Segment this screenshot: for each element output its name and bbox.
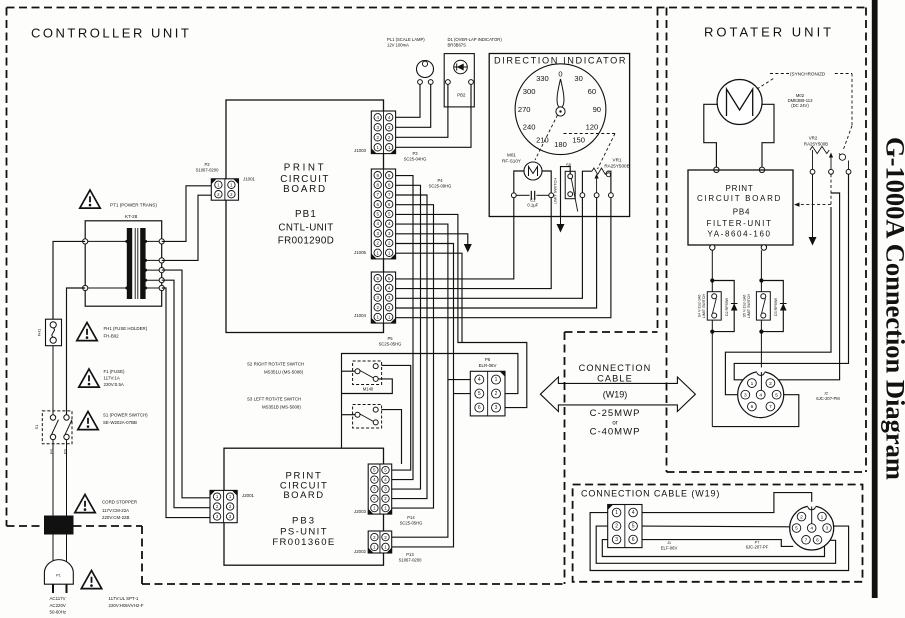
connector P7 6JC-207-PF round [790,506,834,550]
wire J1 pin4 to P7 pin4 notch [642,493,812,524]
print circuit board PB3 outline [224,448,384,565]
S3 contacts [355,412,360,417]
svg-text:P6: P6 [485,357,491,362]
P7 pin 6 [813,536,822,545]
fuse FH1 terminals and element [50,322,56,328]
svg-text:J2002: J2002 [354,549,367,554]
svg-text:PB2: PB2 [457,93,466,98]
wire transformer to J2001 pin3 [162,288,210,518]
svg-text:J1005: J1005 [354,250,367,255]
svg-text:PB1: PB1 [295,209,317,220]
connector J1001 [211,179,238,200]
svg-text:P4: P4 [437,178,443,183]
wire transformer primary left to AC line B [67,288,86,415]
svg-text:VR1: VR1 [613,158,622,163]
print circuit board PB1 outline [226,100,384,333]
S2 lever [360,370,374,378]
wire DI VR1-right to J1004 pin1 [396,198,611,318]
S3 lever [360,414,374,422]
svg-text:SC25-05HG: SC25-05HG [400,521,423,526]
svg-text:5: 5 [795,526,798,532]
wire S1 to cord stopper line B [66,440,68,516]
svg-text:FR001290D: FR001290D [278,236,334,247]
wire S5 into J2 pin4 through notch [760,372,762,390]
P7 pin 7 [802,536,811,545]
J2 pin 5 [772,390,781,399]
wire J1005 pin4 to J2002 pin2 with branch to P6 pin4 [392,224,448,537]
wire lamp right to J1003 pin3 [396,84,431,127]
svg-text:PB3: PB3 [292,516,316,527]
wire VR2 right terminal to J2 pin1 loop [734,174,848,380]
svg-text:MS351B (MS-5008): MS351B (MS-5008) [262,405,301,410]
svg-text:1: 1 [751,381,754,387]
wire DI S6 to J1004 pin3 [396,198,583,299]
connector J2 6JC-207-PM round [738,372,784,418]
controller unit dashed boundary top [7,7,867,9]
transformer PT1 primary winding bar [127,228,132,299]
limit switch S6 lever [571,178,577,211]
PB4 top terminals [714,167,719,172]
connector J1004 [371,272,395,323]
J2 pin 6 [748,402,757,411]
svg-text:ROTATER UNIT: ROTATER UNIT [704,25,834,40]
svg-text:RA25Y500B: RA25Y500B [804,141,828,146]
svg-text:4: 4 [759,392,762,398]
svg-text:ELR-06V: ELR-06V [479,363,497,368]
svg-text:SC25-05HG: SC25-05HG [379,342,402,347]
svg-text:J1004: J1004 [354,313,367,318]
svg-text:RA25Y500B: RA25Y500B [604,164,629,169]
connector J2003 [368,464,392,514]
diode D3 symbol [780,304,787,311]
wire cord stopper to plug [52,535,54,571]
svg-text:S1067-0200: S1067-0200 [196,168,219,173]
svg-text:SC25-09HG: SC25-09HG [429,184,452,189]
P7 pin 1 [818,512,827,521]
svg-text:5: 5 [632,524,635,530]
svg-text:J1003: J1003 [354,148,367,153]
J2 pin 1 [748,379,757,388]
wire PB2 right to J1003 pin1 [396,84,471,147]
svg-text:6: 6 [478,405,481,411]
wire J1 pin1 to P7 pin3 [590,513,849,571]
limit switch S4 wire from PB4 [711,250,713,426]
connector J2001 [210,490,237,522]
svg-text:1: 1 [821,514,824,520]
P7 pin 2 [797,512,806,521]
overlap indicator PB2 box [444,54,474,107]
svg-text:BR3B67S: BR3B67S [448,43,467,48]
svg-text:FR001360E: FR001360E [272,537,335,548]
svg-text:4: 4 [478,377,481,383]
svg-text:FH-B02: FH-B02 [104,334,120,339]
svg-text:PRINT: PRINT [284,163,326,174]
power switch S1 levers [52,420,59,435]
svg-text:6JC-207-PM: 6JC-207-PM [816,396,840,401]
S5 junction dots [759,278,763,282]
rotator unit dashed boundary right [865,8,867,473]
svg-text:S2 RIGHT ROTATE SWITCH: S2 RIGHT ROTATE SWITCH [247,362,304,367]
svg-text:AC220V: AC220V [50,603,66,608]
svg-text:PT1 (POWER TRANS): PT1 (POWER TRANS) [110,203,157,208]
diode D3 branch [761,281,783,332]
rotator unit dashed boundary left [666,8,668,473]
wire VR2 jog to J2 pin2 loop [779,193,840,380]
controller unit dashed boundary cord stopper to jog [74,525,143,527]
svg-text:S3 LEFT ROTATE SWITCH: S3 LEFT ROTATE SWITCH [247,397,301,402]
dashed wire VR2 wiper to PB4 [830,174,832,204]
wire transformer primary left to AC line A [53,241,85,319]
svg-text:7: 7 [805,538,808,544]
diode D2 symbol [731,304,738,311]
chassis arrow below DI box from S6 loop [560,217,562,226]
J2 pin 3 [741,390,750,399]
motor M01 circle [524,162,542,180]
svg-text:(SYNCHRONIZD: (SYNCHRONIZD [790,71,826,76]
svg-text:1: 1 [495,377,498,383]
svg-text:90: 90 [593,105,601,114]
controller unit dashed boundary bottom [142,583,565,585]
S2 contacts [355,369,360,374]
limit switch S5 box [756,292,770,320]
S4 junction dots [710,278,714,282]
wire VR2 wiper solid down to J2 pin3 loop [725,207,831,395]
transformer PT1 secondary winding bar [140,228,145,299]
J2 pin 2 [766,379,775,388]
plug P1 prongs [52,584,54,593]
svg-text:S4 V-1S2-1A6: S4 V-1S2-1A6 [697,295,701,318]
warning triangle P1 cable [81,571,101,589]
svg-text:CORD STOPPER: CORD STOPPER [102,500,137,505]
wire transformer to J2001 pin2 [162,280,210,508]
svg-text:P1: P1 [56,574,61,578]
wire transformer to J2001 pin1 [162,270,210,498]
wire J1005 pin6 to J2003 pin1 [392,205,434,508]
svg-text:4: 4 [810,526,813,532]
transformer PT1 core lines [134,228,136,299]
warning triangle FH1 [77,323,97,341]
svg-text:0: 0 [558,70,562,79]
svg-text:6: 6 [816,538,819,544]
svg-text:SC25-04HG: SC25-04HG [404,157,427,162]
wire J1 pin6 to P7 pin7 [642,540,793,547]
svg-text:120: 120 [586,122,599,131]
cord stopper block [44,516,74,535]
warning triangle PT1 [80,190,100,208]
svg-text:J2001: J2001 [242,493,255,498]
transformer PT1 primary taps [85,240,127,242]
plug P1 body [44,560,73,585]
J2 pin 4 [756,390,765,399]
print circuit board PB4 outline [688,170,793,245]
svg-text:117V:UL SPT-1: 117V:UL SPT-1 [109,596,139,601]
svg-text:AC117V: AC117V [50,596,66,601]
wire S2 common stub [342,370,356,372]
wire J1005 pin8 to J2003 pin3 [392,185,421,489]
svg-text:VR2: VR2 [809,136,818,141]
rotate switch S3 dashed box [353,405,382,429]
svg-text:RF-S10Y: RF-S10Y [502,159,521,164]
svg-text:12V 100mA: 12V 100mA [387,43,409,48]
svg-text:J2: J2 [824,392,828,396]
svg-text:220V:H05VVH2-F: 220V:H05VVH2-F [109,603,144,608]
controller unit dashed boundary right-upper [657,8,659,333]
svg-text:(DC 24V): (DC 24V) [791,103,809,108]
svg-text:CNTL-UNIT: CNTL-UNIT [278,223,333,234]
svg-text:5: 5 [775,392,778,398]
dashed link needle to M01 [535,115,558,160]
svg-text:50-60Hz: 50-60Hz [50,610,67,615]
wire DI M01-right to J1004 pin4 [396,198,552,289]
rotator unit dashed boundary bottom [667,471,867,473]
wire VR2 left terminal chassis arrow [812,174,814,238]
svg-text:(W19): (W19) [603,390,628,400]
wire J1 pin2 to P7 pin1 [596,526,835,563]
connector P6 ELR-06V [470,371,505,416]
motor M01 loop wires [514,171,524,193]
svg-text:C-25MWP: C-25MWP [590,408,641,419]
wire lamp left to J1003 pin4 [396,84,420,117]
svg-text:S1067-0200: S1067-0200 [399,558,422,563]
controller unit dashed boundary left [6,8,8,527]
wire J1 pin3 to P7 pin6 [602,540,824,557]
svg-text:3: 3 [826,526,829,532]
wire S6 top loop to box bottom [561,167,571,217]
svg-text:G-1000A Connection Diagram: G-1000A Connection Diagram [881,137,905,480]
wire S2-NC down to J2003 pin5 [381,365,410,470]
svg-text:P14: P14 [407,515,415,520]
transformer PT1 outline [85,221,162,306]
wire J1005 pin2 to J2002 pin1 with branch to P6 pin5 [392,244,454,547]
wire transformer to J1001 pin2 [162,195,212,260]
P7 pin 3 [823,524,832,533]
wire DI VR1-wiper to J1004 pin2 [396,198,597,308]
P7 pin 5 [792,524,801,533]
title bar black strip [872,0,878,598]
warning triangle cord stopper [75,495,95,513]
J2 pin 7 [766,402,775,411]
svg-text:3: 3 [615,537,618,543]
svg-text:D3 RP59W: D3 RP59W [774,297,778,316]
svg-text:PL1 (SCALE LAMP): PL1 (SCALE LAMP) [387,37,425,42]
LED D1 symbol [454,60,468,74]
svg-text:6: 6 [632,537,635,543]
warning triangle F1 [79,369,99,387]
svg-text:30: 30 [574,74,582,83]
svg-text:PB4: PB4 [733,208,751,217]
wire J2 bottom loop pin5 [712,395,799,427]
svg-text:2: 2 [769,381,772,387]
svg-text:BOARD: BOARD [283,490,324,501]
svg-text:LIMIT SWITCH: LIMIT SWITCH [747,293,751,318]
limit switch S4 box [707,292,721,320]
controller unit dashed boundary jog right [565,331,658,333]
warning triangle S1 [78,412,98,430]
wire DI M01-left to J1004 pin5 [396,198,514,279]
svg-text:FH1 (FUSE HOLDER): FH1 (FUSE HOLDER) [104,326,148,331]
svg-text:CONTROLLER UNIT: CONTROLLER UNIT [31,26,191,41]
svg-text:D1 (OVER-LAP INDICATOR): D1 (OVER-LAP INDICATOR) [448,37,503,42]
connector J1 ELF-06V [608,505,642,548]
compass dial circle [515,64,606,155]
svg-text:LIMIT SWITCH: LIMIT SWITCH [553,178,558,204]
svg-text:300: 300 [523,87,536,96]
PB2 terminals [446,80,451,85]
potentiometer VR1 [582,171,592,193]
motor M02 body outline [704,104,718,167]
capacitor C1 [511,193,516,198]
potentiometer VR2 [810,146,829,153]
direction indicator terminals [580,193,585,198]
svg-text:220V:0.5A: 220V:0.5A [104,382,124,387]
scale lamp PL1 [417,61,434,78]
motor M02 circle [717,80,762,125]
svg-text:60: 60 [588,87,596,96]
connector J1005 [371,169,395,259]
svg-text:7: 7 [769,404,772,410]
wire S1 to cord stopper line A [52,440,54,516]
label SYNCHRONIZD [789,69,833,77]
VR2 wiper arrow [830,156,832,169]
wire J1005 pin3 to chassis arrow [396,234,468,245]
svg-text:FH1: FH1 [37,328,42,336]
dashed synchronized link [757,78,775,90]
svg-text:240: 240 [523,123,536,132]
svg-text:270: 270 [518,105,531,114]
svg-text:180: 180 [554,140,567,149]
diode D2 branch [712,281,734,332]
svg-text:1: 1 [615,510,618,516]
connection cable double arrow [540,377,695,412]
svg-text:M01: M01 [507,153,516,158]
VR2 terminals [810,169,815,174]
svg-text:FILTER-UNIT: FILTER-UNIT [707,219,773,228]
svg-text:2: 2 [800,514,803,520]
limit switch S6 box [565,171,575,198]
rotate switch S2 dashed box [353,361,382,385]
svg-text:220V:CM-22B: 220V:CM-22B [102,515,129,520]
wire transformer to J1001 pin1 [162,186,212,242]
svg-text:MS351U (MS-5008): MS351U (MS-5008) [264,370,304,375]
svg-text:3: 3 [495,405,498,411]
svg-text:SE-W202A-07BB: SE-W202A-07BB [103,420,137,425]
svg-text:C-40MWP: C-40MWP [590,427,641,438]
limit switch S5 wire to J2 pin4 [760,250,762,390]
svg-text:LIMIT SWITCH: LIMIT SWITCH [702,293,706,318]
svg-text:P2: P2 [204,162,210,167]
svg-text:CIRCUIT BOARD: CIRCUIT BOARD [697,194,782,203]
compass needle [557,79,564,107]
svg-text:S5 V-1S2-1A6: S5 V-1S2-1A6 [742,295,746,318]
VR1 wiper arrow [596,178,598,193]
svg-text:6: 6 [751,404,754,410]
svg-text:J1001: J1001 [243,177,256,182]
svg-text:150: 150 [572,135,585,144]
connector J1003 [371,111,395,154]
wire S2 lower contact jog to rail [342,379,393,394]
svg-text:PRINT: PRINT [726,184,754,193]
svg-text:J2003: J2003 [354,509,367,514]
direction indicator box [489,54,629,217]
wire FH1 to S1 [52,346,54,415]
svg-text:S1 (POWER SWITCH): S1 (POWER SWITCH) [103,413,148,418]
controller unit dashed boundary jog down [141,526,143,584]
svg-text:4: 4 [632,510,635,516]
svg-text:CONNECTION CABLE (W19): CONNECTION CABLE (W19) [581,489,720,499]
limit switch S6 contacts [568,174,573,179]
wire net S2 common rail to P6 pin2 [342,354,518,449]
svg-text:117V:1A: 117V:1A [104,376,120,381]
wire J1005 pin1 join [396,253,462,342]
svg-text:P13: P13 [406,552,414,557]
svg-text:330: 330 [536,74,549,83]
wire PB2 left to J1003 pin2 [396,84,448,137]
lamp PL1 terminals [418,80,423,85]
svg-text:5: 5 [478,391,481,397]
wire J1005 pin5 to P6 pin3 via jog [396,214,527,407]
svg-text:2: 2 [495,391,498,397]
svg-text:6JC-207-PF: 6JC-207-PF [746,545,769,550]
svg-text:KT-28: KT-28 [125,214,138,219]
svg-text:YA-8604-160: YA-8604-160 [707,230,771,239]
svg-text:2: 2 [615,524,618,530]
wire S3-NC down to J2003 [381,410,401,464]
svg-text:0.1µF: 0.1µF [527,203,538,208]
svg-text:CABLE: CABLE [597,374,633,384]
svg-text:M140: M140 [363,387,374,392]
svg-text:P3: P3 [412,151,418,156]
connection cable W19 dashed box [573,485,863,582]
controller unit dashed boundary right-lower [564,332,566,584]
svg-text:ELF-06V: ELF-06V [661,546,678,551]
fuse holder FH1 box [46,319,62,346]
transformer PT1 secondary taps [146,240,162,242]
svg-text:S1: S1 [34,424,39,430]
svg-text:CONNECTION: CONNECTION [579,363,652,373]
P7 pin 4 [807,524,816,533]
svg-text:F1 (FUSE): F1 (FUSE) [104,369,126,374]
svg-text:P5: P5 [387,336,393,341]
connector J2002 [368,531,392,553]
svg-text:PS-UNIT: PS-UNIT [280,526,328,537]
svg-text:3: 3 [744,392,747,398]
wire S3 common stub [342,414,356,416]
svg-text:117V:CM-22A: 117V:CM-22A [102,508,129,513]
PB4 bottom terminals [710,245,715,250]
power switch S1 dashed box [42,411,72,444]
wire J1005 pin7 to J2003 pin2 [392,195,427,499]
svg-text:D2 RP59W: D2 RP59W [725,297,729,316]
svg-text:BOARD: BOARD [283,184,327,195]
wire J1 pin5 to P7 pin5 [642,525,790,528]
dashed link needle to VR1 [564,133,616,135]
controller unit dashed boundary bottom-left to cord stopper [7,525,45,527]
power switch S1 contacts [50,415,55,420]
wire J1005 pin9 to J2003 pin4 [392,176,413,480]
